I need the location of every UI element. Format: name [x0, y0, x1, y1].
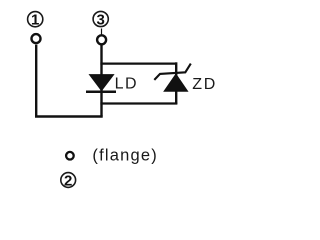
zener diode ZD: [154, 64, 191, 92]
pin label 3 (circled digit): [93, 11, 108, 28]
wire pin3 vertical: [100, 45, 102, 116]
svg-text:ZD: ZD: [192, 76, 217, 93]
pin label 2 (circled digit): [61, 172, 76, 189]
wire bottom horizontal (pin1 to pin3 net): [35, 115, 103, 117]
wire top rail: [100, 62, 176, 64]
pin label 1 (circled digit): [28, 12, 43, 29]
terminal pin 1: [32, 34, 41, 43]
wire stub pin 3: [101, 29, 103, 36]
wire ZD vertical: [175, 62, 177, 104]
svg-text:3: 3: [97, 11, 105, 28]
svg-text:(flange): (flange): [92, 146, 158, 164]
wire bottom rail: [100, 102, 177, 104]
terminal pin 3: [97, 35, 106, 44]
svg-text:LD: LD: [115, 76, 138, 93]
terminal flange (pin 2): [66, 152, 74, 160]
svg-text:2: 2: [64, 172, 72, 189]
laser diode LD: [86, 75, 116, 92]
svg-text:1: 1: [31, 12, 39, 29]
wire pin1 vertical: [35, 45, 37, 117]
